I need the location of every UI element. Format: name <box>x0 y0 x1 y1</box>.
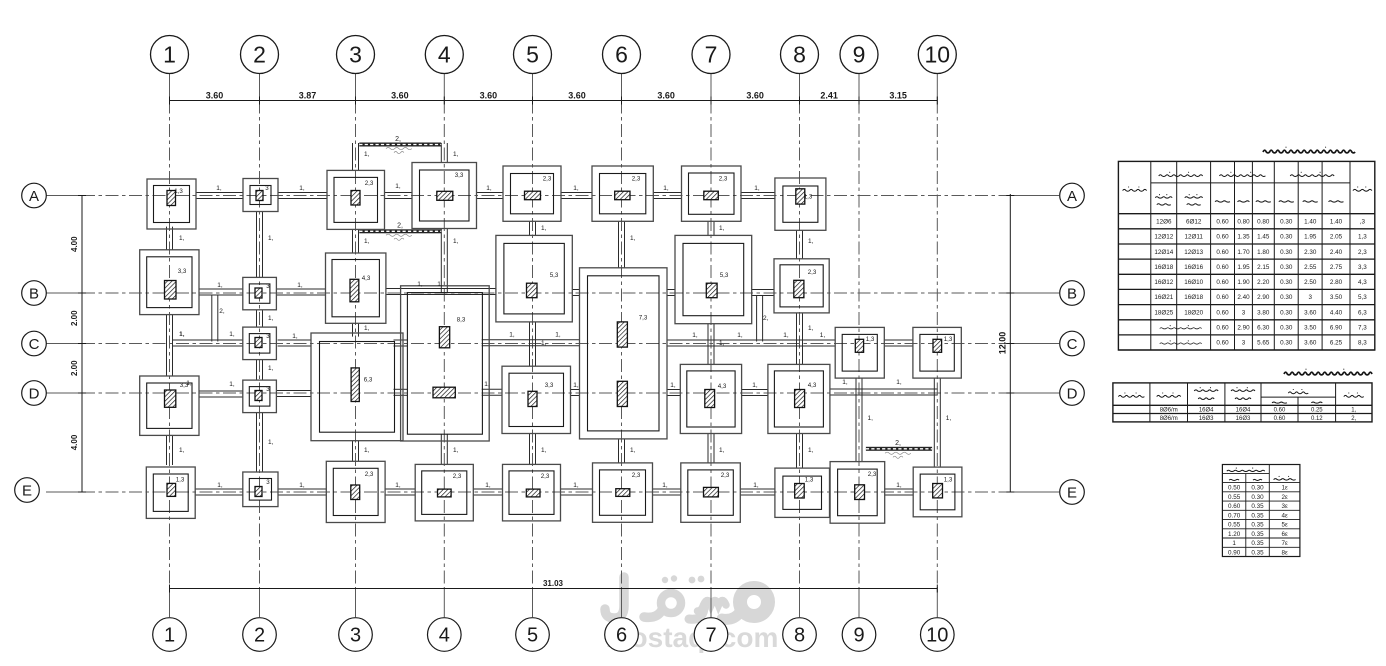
svg-text:1.90: 1.90 <box>1237 279 1250 286</box>
svg-text:5,3: 5,3 <box>720 272 729 279</box>
svg-text:31.03: 31.03 <box>543 579 564 588</box>
svg-text:8,3: 8,3 <box>1358 340 1367 347</box>
svg-text:,3: ,3 <box>1360 219 1366 226</box>
svg-text:16Ø12: 16Ø12 <box>1154 279 1173 286</box>
svg-text:3: 3 <box>266 333 270 340</box>
svg-text:4.00: 4.00 <box>70 236 79 252</box>
svg-text:1,: 1, <box>229 381 235 388</box>
svg-text:C: C <box>1067 336 1078 353</box>
svg-text:2,3: 2,3 <box>632 472 641 479</box>
svg-text:1,: 1, <box>485 482 491 489</box>
svg-text:1,: 1, <box>299 482 305 489</box>
svg-text:4.40: 4.40 <box>1330 309 1343 316</box>
svg-text:1,: 1, <box>541 340 547 347</box>
svg-text:0.35: 0.35 <box>1251 531 1264 538</box>
svg-text:1.70: 1.70 <box>1237 249 1250 256</box>
svg-text:0.55: 0.55 <box>1228 522 1241 529</box>
svg-text:0.30: 0.30 <box>1280 325 1293 332</box>
svg-text:0.30: 0.30 <box>1280 234 1293 241</box>
svg-text:8,3: 8,3 <box>457 317 466 324</box>
svg-text:10: 10 <box>926 625 948 647</box>
svg-text:2.75: 2.75 <box>1330 264 1343 271</box>
svg-text:0.70: 0.70 <box>1228 512 1241 519</box>
svg-text:5,3: 5,3 <box>1358 294 1367 301</box>
svg-text:0.50: 0.50 <box>1228 485 1241 492</box>
svg-text:6ε: 6ε <box>1281 531 1288 538</box>
svg-text:3: 3 <box>266 283 270 290</box>
svg-text:3,3: 3,3 <box>455 172 464 179</box>
svg-text:0.80: 0.80 <box>1257 219 1270 226</box>
svg-text:5,3: 5,3 <box>550 272 559 279</box>
svg-text:1,: 1, <box>555 332 561 339</box>
svg-text:0.30: 0.30 <box>1251 485 1264 492</box>
svg-text:1: 1 <box>164 625 175 647</box>
svg-text:12Ø13: 12Ø13 <box>1184 249 1203 256</box>
svg-text:1,: 1, <box>292 333 298 340</box>
svg-text:0.35: 0.35 <box>1251 522 1264 529</box>
svg-text:2.40: 2.40 <box>1237 294 1250 301</box>
svg-text:A: A <box>1067 188 1077 205</box>
svg-text:3.50: 3.50 <box>1330 294 1343 301</box>
svg-text:3.87: 3.87 <box>299 91 317 101</box>
svg-text:2,3: 2,3 <box>541 473 550 480</box>
svg-text:1,: 1, <box>719 225 725 232</box>
svg-text:1,: 1, <box>364 151 370 158</box>
svg-text:7: 7 <box>705 625 716 647</box>
svg-text:0.60: 0.60 <box>1216 325 1229 332</box>
svg-text:1,: 1, <box>808 447 814 454</box>
svg-text:0.30: 0.30 <box>1280 340 1293 347</box>
svg-text:1,: 1, <box>541 225 547 232</box>
svg-text:0.90: 0.90 <box>1228 549 1241 556</box>
svg-text:1,: 1, <box>186 380 192 387</box>
svg-text:1,: 1, <box>217 482 223 489</box>
svg-text:E: E <box>22 483 32 500</box>
svg-text:16Ø3: 16Ø3 <box>1199 416 1214 422</box>
svg-text:2,3: 2,3 <box>365 180 374 187</box>
svg-text:1,3: 1,3 <box>805 477 814 484</box>
svg-text:1: 1 <box>163 42 176 68</box>
svg-text:1,: 1, <box>453 238 459 245</box>
svg-text:3: 3 <box>350 625 361 647</box>
svg-text:0.35: 0.35 <box>1251 540 1264 547</box>
svg-text:1,: 1, <box>217 282 223 289</box>
svg-text:6,3: 6,3 <box>364 377 373 384</box>
svg-text:1,: 1, <box>754 185 760 192</box>
svg-text:1,: 1, <box>395 183 401 190</box>
svg-text:1.40: 1.40 <box>1304 219 1317 226</box>
svg-text:8Ø6/m: 8Ø6/m <box>1160 408 1178 414</box>
svg-text:2,3: 2,3 <box>365 471 374 478</box>
svg-text:1,: 1, <box>808 325 814 332</box>
svg-text:0.60: 0.60 <box>1216 234 1229 241</box>
svg-text:4: 4 <box>438 42 451 68</box>
svg-text:1,: 1, <box>486 185 492 192</box>
svg-text:1,: 1, <box>896 482 902 489</box>
svg-text:2.55: 2.55 <box>1304 264 1317 271</box>
svg-text:1,: 1, <box>946 415 952 422</box>
svg-text:3: 3 <box>1308 294 1312 301</box>
svg-text:3.60: 3.60 <box>1304 309 1317 316</box>
svg-text:8ε: 8ε <box>1281 549 1288 556</box>
svg-text:16Ø4: 16Ø4 <box>1236 408 1251 414</box>
svg-text:16Ø18: 16Ø18 <box>1154 264 1173 271</box>
svg-text:1,3: 1,3 <box>804 194 813 201</box>
svg-text:D: D <box>1067 386 1078 403</box>
svg-text:3: 3 <box>349 42 362 68</box>
svg-text:1,: 1, <box>297 282 303 289</box>
svg-text:2ε: 2ε <box>1281 494 1288 501</box>
svg-text:0.60: 0.60 <box>1228 503 1241 510</box>
svg-text:0.35: 0.35 <box>1251 512 1264 519</box>
svg-text:1,: 1, <box>630 447 636 454</box>
svg-text:2,3: 2,3 <box>1358 249 1367 256</box>
svg-text:2,3: 2,3 <box>868 471 877 478</box>
svg-text:8Ø6/m: 8Ø6/m <box>1160 416 1178 422</box>
svg-text:3ε: 3ε <box>1281 503 1288 510</box>
svg-text:0.60: 0.60 <box>1216 279 1229 286</box>
svg-text:3,3: 3,3 <box>178 268 187 275</box>
svg-text:6,3: 6,3 <box>1358 309 1367 316</box>
svg-text:B: B <box>29 286 39 303</box>
svg-text:2.90: 2.90 <box>1257 294 1270 301</box>
svg-text:2,: 2, <box>763 315 769 322</box>
svg-text:3.60: 3.60 <box>391 91 409 101</box>
svg-text:16Ø3: 16Ø3 <box>1236 416 1251 422</box>
svg-text:2,3: 2,3 <box>543 176 552 183</box>
svg-text:7,3: 7,3 <box>1358 325 1367 332</box>
svg-text:12Ø11: 12Ø11 <box>1184 234 1203 241</box>
svg-text:2,: 2, <box>1351 416 1356 422</box>
svg-text:0.60: 0.60 <box>1216 264 1229 271</box>
svg-text:2.30: 2.30 <box>1304 249 1317 256</box>
svg-text:5: 5 <box>527 625 538 647</box>
svg-text:1,: 1, <box>662 482 668 489</box>
svg-text:12Ø14: 12Ø14 <box>1154 249 1173 256</box>
svg-text:3.15: 3.15 <box>889 91 907 101</box>
svg-text:1.80: 1.80 <box>1257 249 1270 256</box>
svg-text:1,: 1, <box>364 325 370 332</box>
svg-text:16Ø16: 16Ø16 <box>1184 264 1203 271</box>
svg-text:1,: 1, <box>453 447 459 454</box>
svg-text:2,: 2, <box>397 223 403 230</box>
svg-text:1,: 1, <box>229 331 235 338</box>
svg-text:0.60: 0.60 <box>1216 294 1229 301</box>
svg-text:1,: 1, <box>364 447 370 454</box>
svg-text:10: 10 <box>925 42 951 68</box>
svg-text:1,: 1, <box>179 235 185 242</box>
svg-text:0.30: 0.30 <box>1251 494 1264 501</box>
svg-text:1.95: 1.95 <box>1304 234 1317 241</box>
svg-text:2.00: 2.00 <box>70 310 79 326</box>
svg-text:6.30: 6.30 <box>1257 325 1270 332</box>
svg-text:3.60: 3.60 <box>1304 340 1317 347</box>
svg-text:C: C <box>29 336 40 353</box>
svg-text:1,: 1, <box>663 185 669 192</box>
svg-text:1,3: 1,3 <box>1358 234 1367 241</box>
svg-text:1,: 1, <box>753 482 759 489</box>
svg-text:3.60: 3.60 <box>480 91 498 101</box>
svg-text:4,3: 4,3 <box>362 275 371 282</box>
svg-text:0.30: 0.30 <box>1280 294 1293 301</box>
svg-text:3,3: 3,3 <box>545 382 554 389</box>
svg-text:6.90: 6.90 <box>1330 325 1343 332</box>
svg-text:0.55: 0.55 <box>1228 494 1241 501</box>
svg-text:1,: 1, <box>573 185 579 192</box>
svg-text:1,: 1, <box>842 379 848 386</box>
svg-text:12Ø6: 12Ø6 <box>1156 219 1172 226</box>
svg-text:1: 1 <box>1232 540 1236 547</box>
svg-text:7: 7 <box>705 42 718 68</box>
svg-text:4: 4 <box>439 625 450 647</box>
svg-text:0.25: 0.25 <box>1311 408 1323 414</box>
svg-text:1,3: 1,3 <box>944 336 953 343</box>
svg-text:1,: 1, <box>896 379 902 386</box>
svg-text:1,: 1, <box>453 151 459 158</box>
svg-text:5: 5 <box>526 42 539 68</box>
svg-text:6: 6 <box>615 42 628 68</box>
svg-text:4ε: 4ε <box>1281 512 1288 519</box>
svg-text:1,: 1, <box>670 382 676 389</box>
svg-text:6Ø12: 6Ø12 <box>1186 219 1202 226</box>
svg-text:0.60: 0.60 <box>1274 416 1286 422</box>
svg-text:18Ø20: 18Ø20 <box>1184 309 1203 316</box>
svg-text:0.30: 0.30 <box>1280 309 1293 316</box>
svg-text:1.95: 1.95 <box>1237 264 1250 271</box>
svg-text:1,3: 1,3 <box>176 477 185 484</box>
svg-text:0.30: 0.30 <box>1280 279 1293 286</box>
svg-text:9: 9 <box>853 625 864 647</box>
svg-text:0.60: 0.60 <box>1274 408 1286 414</box>
svg-text:3.60: 3.60 <box>206 91 224 101</box>
svg-text:1,: 1, <box>179 447 185 454</box>
svg-text:2.20: 2.20 <box>1257 279 1270 286</box>
svg-text:1,: 1, <box>1351 408 1356 414</box>
svg-text:16Ø18: 16Ø18 <box>1184 294 1203 301</box>
svg-text:1,: 1, <box>752 382 758 389</box>
svg-text:0.60: 0.60 <box>1216 219 1229 226</box>
svg-text:3.60: 3.60 <box>746 91 764 101</box>
svg-text:0.35: 0.35 <box>1251 549 1264 556</box>
svg-text:4,3: 4,3 <box>1358 279 1367 286</box>
svg-text:2.90: 2.90 <box>1237 325 1250 332</box>
svg-text:16Ø4: 16Ø4 <box>1199 408 1214 414</box>
svg-text:12Ø12: 12Ø12 <box>1154 234 1173 241</box>
svg-text:2.80: 2.80 <box>1330 279 1343 286</box>
svg-text:3: 3 <box>266 386 270 393</box>
svg-text:1,: 1, <box>268 235 274 242</box>
svg-text:2,3: 2,3 <box>721 472 730 479</box>
svg-text:2,: 2, <box>895 440 901 447</box>
svg-text:1,: 1, <box>692 332 698 339</box>
svg-text:1,3: 1,3 <box>944 477 953 484</box>
svg-text:A: A <box>29 188 39 205</box>
svg-text:2.05: 2.05 <box>1330 234 1343 241</box>
svg-text:2: 2 <box>253 42 266 68</box>
svg-text:9: 9 <box>853 42 866 68</box>
svg-text:1,: 1, <box>509 332 515 339</box>
svg-text:1.45: 1.45 <box>1257 234 1270 241</box>
svg-text:3.60: 3.60 <box>568 91 586 101</box>
svg-text:1,: 1, <box>268 365 274 372</box>
svg-text:2,: 2, <box>219 308 225 315</box>
svg-text:16Ø10: 16Ø10 <box>1184 279 1203 286</box>
svg-text:1,: 1, <box>573 382 579 389</box>
svg-text:3.60: 3.60 <box>657 91 675 101</box>
svg-text:12.00: 12.00 <box>998 332 1008 355</box>
svg-text:1,: 1, <box>573 482 579 489</box>
svg-text:1,: 1, <box>179 331 185 338</box>
svg-text:0.60: 0.60 <box>1216 249 1229 256</box>
svg-text:2.50: 2.50 <box>1304 279 1317 286</box>
svg-text:2,3: 2,3 <box>632 176 641 183</box>
svg-text:1,: 1, <box>719 447 725 454</box>
svg-text:1,: 1, <box>630 235 636 242</box>
svg-text:2.40: 2.40 <box>1330 249 1343 256</box>
svg-text:1,: 1, <box>437 281 443 288</box>
svg-text:1.40: 1.40 <box>1330 219 1343 226</box>
svg-text:0.60: 0.60 <box>1216 309 1229 316</box>
svg-text:2.41: 2.41 <box>820 91 838 101</box>
svg-text:18Ø25: 18Ø25 <box>1154 309 1173 316</box>
svg-text:1,3: 1,3 <box>174 188 183 195</box>
svg-text:1.20: 1.20 <box>1228 531 1241 538</box>
svg-text:5ε: 5ε <box>1281 522 1288 529</box>
svg-text:3: 3 <box>1242 309 1246 316</box>
svg-text:1,: 1, <box>417 281 423 288</box>
svg-text:6.25: 6.25 <box>1330 340 1343 347</box>
svg-text:5.65: 5.65 <box>1257 340 1270 347</box>
svg-text:4.00: 4.00 <box>70 434 79 450</box>
svg-text:16Ø21: 16Ø21 <box>1154 294 1173 301</box>
svg-text:0.12: 0.12 <box>1311 416 1323 422</box>
svg-text:1,: 1, <box>868 415 874 422</box>
svg-text:0.60: 0.60 <box>1216 340 1229 347</box>
svg-text:1,: 1, <box>364 238 370 245</box>
svg-text:1ε: 1ε <box>1281 485 1288 492</box>
svg-text:1,: 1, <box>268 315 274 322</box>
svg-text:2,3: 2,3 <box>808 269 817 276</box>
svg-text:4,3: 4,3 <box>808 382 817 389</box>
svg-text:3: 3 <box>265 185 269 192</box>
svg-text:7ε: 7ε <box>1281 540 1288 547</box>
svg-text:D: D <box>29 386 40 403</box>
svg-text:1,: 1, <box>541 447 547 454</box>
svg-text:0.80: 0.80 <box>1237 219 1250 226</box>
svg-text:2,: 2, <box>395 136 401 143</box>
svg-text:1,: 1, <box>783 332 789 339</box>
svg-text:4,3: 4,3 <box>718 383 727 390</box>
svg-text:8: 8 <box>793 42 806 68</box>
svg-text:1.35: 1.35 <box>1237 234 1250 241</box>
svg-text:2,3: 2,3 <box>719 176 728 183</box>
svg-text:1,: 1, <box>719 340 725 347</box>
svg-text:3,3: 3,3 <box>1358 264 1367 271</box>
svg-text:6: 6 <box>616 625 627 647</box>
svg-text:1,3: 1,3 <box>866 336 875 343</box>
svg-text:B: B <box>1067 286 1077 303</box>
svg-text:1,: 1, <box>268 439 274 446</box>
svg-text:3: 3 <box>266 479 270 486</box>
svg-text:0.35: 0.35 <box>1251 503 1264 510</box>
svg-text:0.30: 0.30 <box>1280 264 1293 271</box>
svg-text:1,: 1, <box>808 238 814 245</box>
svg-text:0.30: 0.30 <box>1280 219 1293 226</box>
svg-text:E: E <box>1067 485 1077 502</box>
svg-text:1,: 1, <box>395 482 401 489</box>
svg-text:3: 3 <box>1242 340 1246 347</box>
svg-text:3.80: 3.80 <box>1257 309 1270 316</box>
svg-text:7,3: 7,3 <box>639 315 648 322</box>
svg-text:1,: 1, <box>484 381 490 388</box>
svg-text:2,3: 2,3 <box>453 473 462 480</box>
svg-text:1,: 1, <box>820 332 826 339</box>
svg-text:2.00: 2.00 <box>70 360 79 376</box>
svg-text:1,: 1, <box>737 332 743 339</box>
svg-text:3.50: 3.50 <box>1304 325 1317 332</box>
svg-text:0.30: 0.30 <box>1280 249 1293 256</box>
svg-text:1,: 1, <box>216 185 222 192</box>
svg-text:2.15: 2.15 <box>1257 264 1270 271</box>
svg-text:2: 2 <box>254 625 265 647</box>
svg-text:1,: 1, <box>299 185 305 192</box>
svg-text:8: 8 <box>794 625 805 647</box>
